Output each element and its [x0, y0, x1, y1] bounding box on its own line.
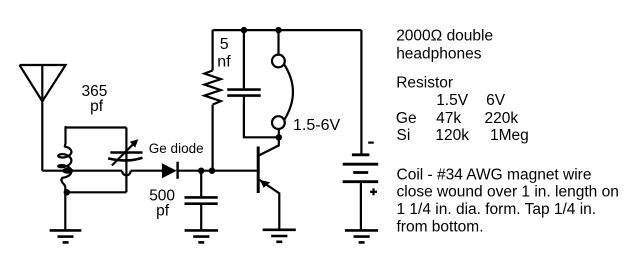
svg-text:Coil - #34 AWG magnet wire: Coil - #34 AWG magnet wire [397, 166, 592, 183]
wire: main horizontal from hop to diode [131, 170, 163, 172]
variable capacitor C1: arrow shaft [112, 143, 135, 166]
svg-text:1.5-6V: 1.5-6V [293, 117, 340, 134]
transistor Q1: base bar [257, 147, 260, 194]
svg-text:2000Ω double: 2000Ω double [396, 27, 493, 44]
text: Si row [397, 127, 529, 144]
svg-text:Resistor: Resistor [396, 74, 453, 91]
svg-text:pf: pf [90, 98, 104, 115]
wire: battery top lead [360, 30, 362, 154]
wire: antenna lead down [41, 100, 43, 171]
battery minus sign [368, 142, 374, 144]
capacitor C3 5nf plates [227, 90, 261, 96]
svg-text:headphones: headphones [396, 46, 482, 63]
headphone jack circle upper [272, 55, 285, 68]
headphone band arc [284, 65, 293, 120]
headphone jack circle lower [272, 116, 285, 129]
resistor R1: bottom lead to main wire [212, 105, 214, 171]
resistor R1: top lead from top rail [212, 30, 214, 70]
variable capacitor C1: arrowhead [130, 139, 139, 147]
wire: headphone bottom lead [278, 129, 280, 137]
svg-text:1 1/4 in. dia. form. Tap 1/4 i: 1 1/4 in. dia. form. Tap 1/4 in. [397, 201, 597, 218]
diode D1 Ge (triangle + cathode bar) [162, 162, 179, 179]
wire: headphone top lead [277, 30, 279, 54]
wire: 500pf cap top lead [200, 171, 202, 197]
wire: battery bottom lead [360, 182, 362, 230]
wire: crossover hop under tank right branch [122, 171, 131, 176]
svg-text:220k: 220k [485, 110, 519, 127]
wire: tank loop bottom [65, 191, 126, 193]
svg-text:nf: nf [217, 54, 231, 71]
svg-text:pf: pf [156, 203, 170, 220]
text: Ge row [396, 110, 518, 127]
variable capacitor C1 365pf: bottom curved plate [108, 158, 142, 161]
svg-text:1Meg: 1Meg [490, 127, 529, 144]
ground: battery ground symbol [345, 230, 378, 242]
svg-text:Ge: Ge [396, 110, 417, 127]
node: top rail headphone junction dot [275, 27, 281, 33]
transistor Q1: emitter arrowhead [260, 180, 270, 188]
node: 500pf junction dot [198, 168, 204, 174]
wire: main horizontal from antenna to crossover hop [42, 170, 122, 172]
variable capacitor C1 365pf: top plate [110, 151, 142, 154]
svg-text:120k: 120k [435, 127, 469, 144]
coil L1 (tank inductor, tapped) [58, 127, 71, 192]
wire: 5nf cap top lead [243, 30, 245, 88]
wire: 5nf cap bottom lead to collector node [244, 97, 279, 138]
capacitor C2 500pf plates [185, 197, 218, 203]
battery B1 plates [343, 155, 379, 182]
node: top rail 5nf junction dot [241, 27, 247, 33]
svg-text:47k: 47k [436, 110, 461, 127]
wire: 500pf cap bottom lead [200, 205, 202, 230]
ground: tank ground symbol [50, 230, 82, 242]
svg-text:close wound over 1 in. length: close wound over 1 in. length on [397, 184, 619, 201]
wire: tank loop top [66, 126, 127, 128]
wire: main horizontal diode to transistor base [177, 170, 257, 172]
svg-text:1.5V: 1.5V [436, 92, 469, 109]
wire: top rail [213, 29, 362, 31]
battery plus sign [370, 188, 377, 195]
transistor Q1: collector lead [259, 137, 279, 155]
svg-text:6V: 6V [486, 92, 506, 109]
node: tank bottom junction dot [64, 189, 70, 195]
antenna [20, 65, 66, 101]
ground: emitter ground symbol [263, 230, 296, 242]
svg-text:Ge diode: Ge diode [149, 141, 204, 156]
wire: ground lead from tank [64, 192, 66, 230]
wire: tank right branch (passes through variable cap) [125, 128, 127, 193]
svg-text:Si: Si [397, 127, 411, 144]
node: coil tap junction dot [62, 168, 73, 174]
node: resistor bottom junction dot [209, 168, 215, 174]
ground: 500pf cap ground symbol [185, 230, 218, 242]
svg-text:5: 5 [220, 36, 229, 53]
node: collector junction dot [276, 134, 282, 140]
resistor R1 zigzag [204, 71, 220, 105]
svg-text:from bottom.: from bottom. [397, 218, 484, 235]
transistor Q1: emitter lead [260, 180, 280, 230]
